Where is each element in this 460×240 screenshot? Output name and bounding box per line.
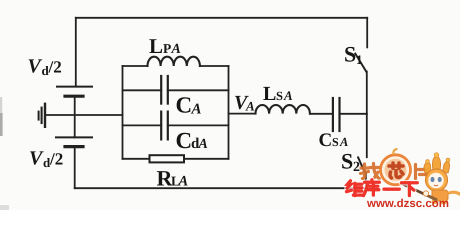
svg-text:P: P — [163, 41, 171, 56]
svg-text:A: A — [178, 174, 189, 190]
wire box bottom left segment — [123, 158, 150, 160]
inductor LSA coil — [256, 105, 310, 114]
watermark mascot — [402, 153, 460, 205]
svg-text:A: A — [283, 88, 293, 103]
svg-text:A: A — [339, 135, 348, 149]
wire battery mid vertical — [74, 96, 76, 137]
capacitor CdA left plate — [160, 112, 162, 140]
svg-text:/2: /2 — [49, 150, 63, 169]
wire CA branch left — [123, 89, 162, 91]
watermark text weikuyixia halo — [346, 180, 417, 196]
svg-text:2: 2 — [353, 160, 360, 175]
label CA — [176, 93, 202, 118]
inductor LPA coil — [148, 57, 200, 66]
svg-text:A: A — [198, 137, 208, 152]
watermark — [346, 149, 459, 210]
ground middle bar — [41, 108, 43, 123]
watermark char xin — [389, 163, 403, 178]
svg-text:/2: /2 — [48, 58, 62, 77]
wire CdA branch right — [168, 124, 229, 126]
svg-text:C: C — [319, 130, 333, 151]
svg-text:A: A — [191, 102, 202, 118]
svg-text:C: C — [176, 128, 193, 153]
wire box bottom right segment — [184, 158, 229, 160]
svg-text:www.dzsc.com: www.dzsc.com — [366, 198, 449, 210]
svg-text:V: V — [29, 148, 44, 170]
ground tall bar — [44, 104, 46, 127]
wire CSA to switch column — [340, 113, 367, 115]
svg-text:1: 1 — [356, 52, 363, 67]
switch S1 blade — [355, 54, 366, 72]
battery B1 top long plate — [57, 86, 92, 88]
label CSA — [319, 130, 349, 151]
label Vd/2 lower — [29, 148, 63, 171]
capacitor CSA right plate — [338, 98, 340, 131]
svg-text:A: A — [171, 42, 181, 57]
resistor RLA body — [150, 155, 185, 162]
svg-text:C: C — [176, 93, 193, 118]
wire LSA to CSA — [310, 113, 333, 115]
wire left drop to battery — [75, 18, 77, 86]
label LSA — [263, 83, 293, 105]
watermark text weikuyixia — [346, 180, 417, 196]
wire mid from ground to box — [45, 114, 123, 116]
svg-text:S: S — [341, 149, 353, 174]
svg-text:A: A — [245, 99, 255, 114]
box right edge — [228, 66, 230, 159]
watermark char pian — [416, 165, 428, 182]
capacitor CSA left plate — [332, 98, 334, 131]
scan noise left edge — [0, 97, 2, 113]
capacitor CA left plate — [160, 76, 162, 104]
switch S2 blade — [358, 157, 365, 172]
label RLA — [157, 166, 189, 191]
battery B2 short thick plate — [65, 145, 83, 148]
svg-text:S: S — [344, 42, 356, 67]
watermark char zhao — [361, 164, 380, 179]
wire box top left segment — [123, 65, 148, 67]
label S2 — [341, 149, 360, 176]
wire right column lower — [365, 172, 367, 188]
capacitor CA right plate — [167, 76, 169, 104]
svg-text:L: L — [263, 83, 276, 105]
svg-text:S: S — [276, 89, 283, 103]
wire CA branch right — [168, 89, 229, 91]
label VA node — [234, 92, 255, 114]
label S1 — [344, 42, 363, 68]
label CdA — [176, 128, 208, 153]
wire top rail — [76, 17, 367, 19]
watermark badge circle — [381, 149, 411, 185]
wire CdA branch left — [123, 124, 162, 126]
svg-text:S: S — [332, 135, 339, 149]
box left edge — [122, 66, 124, 159]
wire right column upper — [366, 18, 368, 48]
svg-text:L: L — [149, 34, 163, 58]
battery B1 short thick plate — [65, 95, 83, 98]
capacitor CdA right plate — [167, 112, 169, 140]
battery B2 long plate — [56, 136, 92, 138]
label Vd/2 upper — [28, 56, 62, 79]
wire bottom rail — [75, 187, 367, 189]
label LPA — [149, 34, 181, 58]
svg-text:V: V — [28, 56, 43, 78]
wire right column middle — [366, 72, 368, 158]
wire VA node output — [229, 113, 256, 115]
wire bottom-left drop — [74, 147, 76, 189]
scan noise bottom left corner — [0, 205, 9, 210]
ground short bar — [38, 112, 40, 120]
wire box top right segment — [200, 65, 229, 67]
